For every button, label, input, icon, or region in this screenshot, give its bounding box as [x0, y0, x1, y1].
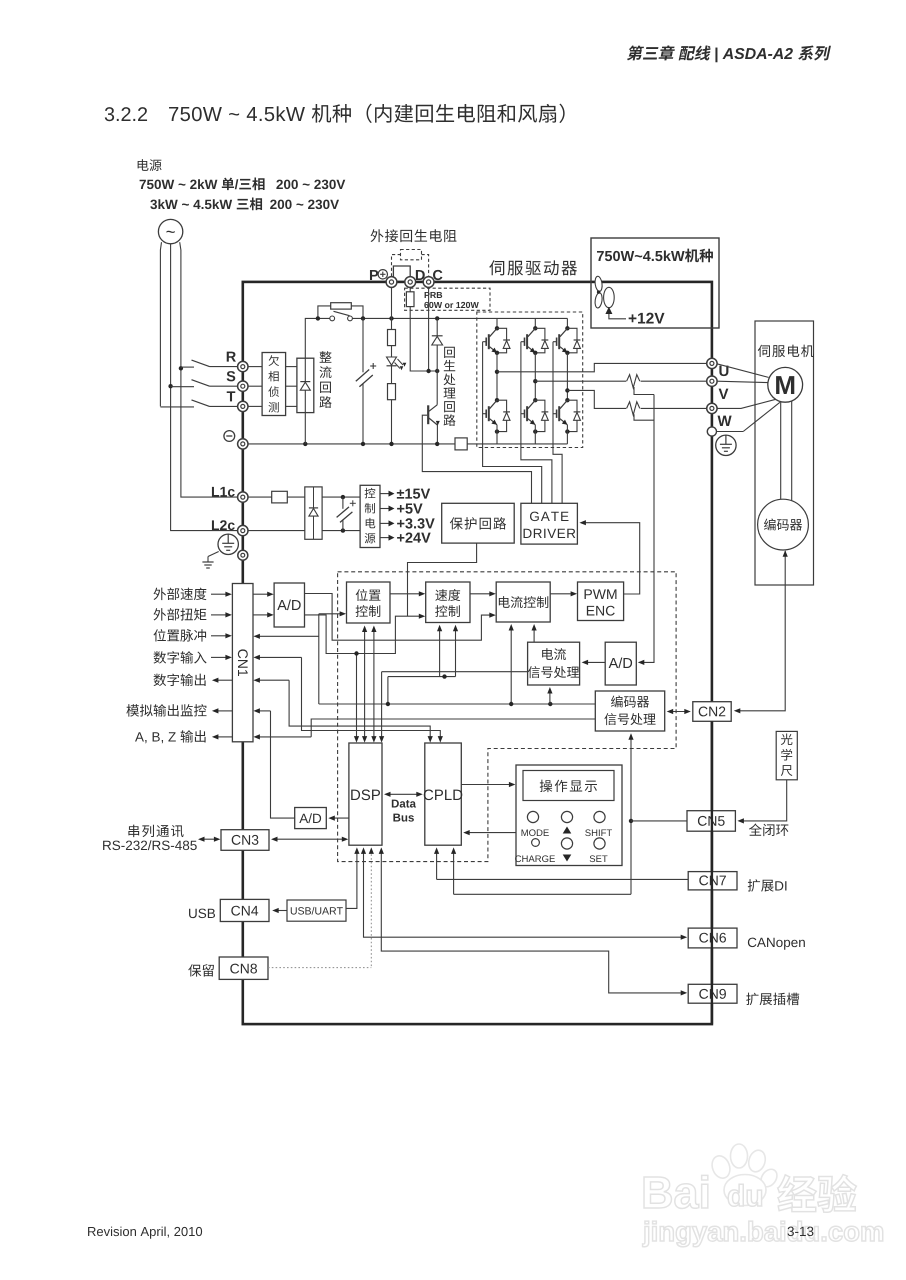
junction control cap bottom	[341, 528, 345, 532]
wire DSP to monitor A/D	[331, 817, 349, 819]
serial double arrow	[201, 838, 218, 840]
soft charge resistor loop	[318, 306, 331, 319]
connector CN3 box	[221, 830, 269, 851]
section title	[105, 107, 147, 121]
terminal R	[238, 361, 248, 371]
DC bus N rail	[243, 443, 455, 445]
bleeder resistor lower	[391, 366, 393, 384]
wire digital output net to CPLD	[258, 679, 289, 681]
terminal V	[707, 376, 717, 386]
current signal processing box	[528, 642, 580, 685]
label P terminal	[370, 270, 378, 280]
label digital input	[154, 651, 207, 664]
encoder feedback wire to CN2	[737, 551, 786, 711]
IGBT leg W phase	[566, 318, 568, 328]
wire fan to +12V	[609, 314, 626, 319]
terminal D	[405, 277, 416, 288]
PE circle symbol input	[218, 534, 238, 554]
main rectifier box	[297, 358, 314, 412]
label V	[719, 389, 729, 399]
connector CN6 box	[688, 928, 737, 948]
current shunt	[455, 438, 467, 450]
label reserved	[188, 964, 214, 976]
junction source R	[179, 366, 183, 370]
current sensor W	[627, 402, 640, 415]
terminal W	[707, 403, 717, 413]
regen diode	[432, 335, 443, 337]
label servo motor	[758, 345, 814, 357]
wire position to speed control	[390, 593, 421, 595]
wire protection circuit down	[408, 543, 477, 616]
control logic dashed outline	[338, 572, 676, 862]
label L2c	[212, 520, 235, 530]
gate driver box U2	[521, 503, 578, 544]
wire position control feedback vertical 2	[373, 627, 375, 740]
jumper P to D	[393, 266, 410, 278]
button CHARGE	[532, 839, 540, 847]
connector CN8 box	[219, 957, 268, 979]
dotted wire CN8 to DSP	[268, 967, 371, 969]
footer revision	[88, 1227, 202, 1239]
label C terminal	[433, 270, 442, 280]
label S	[227, 371, 236, 381]
label R	[227, 352, 236, 362]
phase loss detection box	[262, 353, 286, 416]
internal regen resistor PRB dashed box	[405, 288, 490, 310]
USB UART box	[287, 900, 346, 921]
IGBT leg V phase	[534, 318, 536, 328]
motor M circle	[768, 367, 803, 402]
control rectifier box	[305, 487, 322, 539]
wire pwm to gate driver	[582, 523, 639, 594]
IGBT leg U phase	[496, 318, 498, 328]
DC link capacitor	[356, 370, 369, 382]
button SET	[594, 838, 605, 849]
junction source S	[168, 384, 172, 388]
wire CPLD to CN7	[437, 878, 689, 880]
wire A/D bottom output to speed control	[305, 615, 421, 654]
wire PRB to regen node	[410, 307, 437, 371]
wire USB UART to DSP	[346, 850, 357, 909]
wire encoder signal to CN2 bidirectional	[670, 711, 689, 713]
wire CN1 speed to A/D	[253, 593, 269, 595]
wire bus to capacitor	[362, 318, 364, 372]
junction C regen node	[426, 369, 430, 373]
motor PE ground circle	[717, 431, 744, 433]
junction diode regen node	[435, 369, 439, 373]
links phase loss to rectifier	[286, 366, 297, 368]
button MODE	[527, 811, 538, 822]
A/D converter analog input box	[274, 583, 304, 627]
junction bus P branch	[389, 316, 393, 320]
label servo driver	[489, 260, 577, 275]
page header chapter title	[626, 45, 831, 62]
encoder signal processing box	[595, 691, 664, 731]
button up arrow	[561, 811, 572, 822]
label external speed input	[154, 588, 207, 600]
terminal PE output	[707, 427, 716, 436]
junction N capacitor	[361, 442, 365, 446]
wire speed control bottom taps	[439, 627, 441, 677]
label rectifier circuit	[320, 351, 332, 363]
gate wires bridge to gate driver	[483, 448, 542, 504]
wire L1c to fuse	[248, 496, 272, 498]
label full closed loop	[749, 824, 788, 837]
capacitor polarity plus	[370, 365, 376, 367]
wire source to S switch and L2c	[171, 244, 243, 531]
wire U phase output	[497, 363, 707, 371]
plus-in-circle symbol	[378, 270, 387, 279]
switch S	[171, 386, 194, 388]
encoder circle	[758, 499, 809, 550]
right column connector line	[711, 721, 713, 1024]
connector CN9 box	[688, 984, 737, 1003]
CPLD box U4	[425, 743, 462, 845]
label U	[719, 366, 728, 376]
speed control box	[426, 582, 470, 623]
wire capacitor to N rail	[362, 384, 364, 444]
wire L2c to control rectifier	[248, 530, 305, 532]
wire bus to regen diode	[436, 318, 438, 335]
position control box	[347, 582, 391, 623]
wire DSP to current signal processing	[381, 672, 383, 740]
label A B Z output	[135, 730, 206, 743]
junction N led branch	[389, 442, 393, 446]
wire U to motor	[717, 364, 769, 378]
switch T	[160, 406, 194, 408]
terminal T	[238, 401, 248, 411]
connector CN5 box	[687, 811, 735, 832]
wire W to motor	[717, 399, 778, 409]
wire control rectifier to control power	[322, 496, 360, 498]
current sensor V	[627, 375, 640, 388]
control power outputs	[380, 493, 390, 495]
wire CN1 torque to A/D	[253, 614, 269, 616]
junction current signal on 704	[548, 702, 552, 706]
A/D converter current box	[605, 642, 636, 685]
label expansion slot	[746, 993, 799, 1005]
terminal L2c	[238, 525, 248, 535]
wire A/D top output to current control	[305, 594, 492, 641]
connector CN4 box	[220, 899, 269, 921]
regen gate wire to gate driver	[422, 415, 531, 503]
wire rectifier output to DC bus	[305, 318, 331, 358]
wire D terminal down	[409, 287, 411, 292]
charge LED	[387, 357, 397, 365]
wire position pulse net	[258, 635, 319, 637]
control filter capacitor	[342, 497, 344, 509]
button down arrow	[561, 838, 572, 849]
fan option box 750W-4.5kW	[591, 238, 719, 328]
display window	[523, 771, 614, 801]
wire W phase output	[567, 390, 626, 408]
wire position control feedback vertical 1	[364, 627, 366, 740]
wire A/D to current signal processing	[584, 661, 605, 663]
junction bus capacitor	[361, 316, 365, 320]
wire DSP to CN9	[381, 851, 683, 993]
wire P terminal down	[391, 287, 393, 329]
terminal L1c	[238, 492, 248, 502]
label USB	[189, 909, 215, 919]
bleeder resistor upper	[388, 330, 396, 346]
current control box	[496, 582, 550, 622]
junction control cap top	[341, 495, 345, 499]
wire speed to current control	[470, 593, 491, 595]
wire V phase output	[535, 380, 626, 382]
label regen circuit	[444, 347, 455, 358]
minus terminal symbol	[224, 431, 235, 442]
wires R S T to phase loss box	[248, 366, 262, 368]
dashed wire external resistor to C	[422, 255, 429, 277]
wire panel to CPLD	[466, 832, 516, 834]
label serial communication	[128, 825, 183, 837]
terminal C	[423, 277, 434, 288]
terminal minus	[238, 439, 248, 449]
junction N rectifier	[303, 442, 307, 446]
wire current signal processing to current control	[533, 627, 535, 642]
wire source to T switch	[160, 242, 161, 406]
wire digital input net to CPLD	[258, 656, 301, 658]
label position pulse input	[154, 629, 207, 642]
junction N regen transistor	[435, 442, 439, 446]
wire encoder signal to CN1 position	[319, 703, 596, 705]
wire speed loop vertical 1	[356, 654, 358, 740]
sensor tap W	[634, 414, 654, 420]
terminal PE input	[238, 550, 248, 560]
servo drive enclosure box	[243, 282, 712, 1024]
inverter bridge dashed box	[477, 312, 583, 448]
AC source symbol	[158, 219, 182, 243]
external resistor dashed box	[401, 250, 422, 260]
data bus between DSP and CPLD	[387, 793, 420, 795]
wire LED branch to N rail	[391, 400, 393, 444]
label external regenerative resistor	[371, 229, 457, 242]
chassis ground symbol	[208, 552, 219, 557]
regen transistor Q1	[436, 371, 438, 405]
A/D converter monitor box	[295, 808, 327, 829]
fuse box L1c	[272, 491, 288, 503]
switch R	[181, 366, 194, 368]
wire encoder processing to CN5 CPLD	[630, 735, 632, 895]
wire current control to PWM	[550, 593, 573, 595]
label L1c	[212, 487, 235, 497]
label CANopen	[748, 938, 805, 950]
PRB resistor	[406, 292, 414, 307]
wire CPLD to panel	[461, 784, 511, 786]
junction bus regen diode	[435, 316, 439, 320]
label digital output	[154, 674, 206, 687]
wire DSP to CN6	[364, 851, 684, 938]
wire ABZ from encoder signal processing	[258, 736, 311, 738]
label power source	[138, 159, 162, 171]
DC bus P rail	[352, 317, 567, 319]
label +12V	[629, 313, 665, 324]
button SHIFT	[594, 811, 605, 822]
fan symbol	[594, 276, 603, 292]
connector CN2 box	[693, 702, 731, 722]
wire PE to motor	[743, 402, 780, 431]
operation display panel box	[516, 765, 622, 866]
sensor tap V	[634, 387, 654, 395]
label expansion DI	[748, 879, 787, 891]
label analog monitor output	[126, 704, 206, 716]
wires motor to encoder	[780, 402, 782, 500]
wire optical scale to CN5	[740, 780, 787, 821]
current sensor wire to A/D	[641, 395, 654, 663]
terminal P	[386, 277, 397, 288]
label PRB	[425, 292, 443, 298]
wire V to motor	[717, 381, 768, 382]
connector CN7 box	[688, 872, 737, 890]
terminal U	[707, 358, 717, 368]
label T	[227, 391, 236, 401]
wire CN3 to DSP bidirectional	[274, 838, 345, 840]
wire current signal processing down	[549, 689, 551, 704]
wire USB UART to CN4	[276, 910, 288, 912]
watermark baidu logo	[709, 1144, 780, 1206]
PWM ENC box	[578, 582, 624, 621]
wire C terminal down	[428, 287, 430, 371]
wire analog monitor from A/D2	[258, 710, 270, 712]
label D terminal	[416, 270, 425, 280]
control power supply box	[360, 485, 380, 547]
wire rectifier bottom to N rail	[304, 413, 306, 444]
terminal S	[238, 381, 248, 391]
wire source to R switch and L1c	[180, 242, 243, 497]
footer page number	[788, 1227, 814, 1237]
connector CN1 box	[232, 584, 253, 742]
motor enclosure box	[755, 321, 814, 585]
soft charge relay contact	[330, 316, 335, 321]
label external torque input	[154, 608, 207, 620]
wire current control feedback down	[510, 627, 512, 704]
dashed wire P to external resistor	[392, 255, 401, 277]
optical scale box	[776, 731, 797, 779]
DSP box U3	[349, 743, 382, 845]
label W	[718, 416, 732, 426]
junction bus soft-charge left	[316, 316, 320, 320]
protection circuit box	[442, 503, 515, 543]
